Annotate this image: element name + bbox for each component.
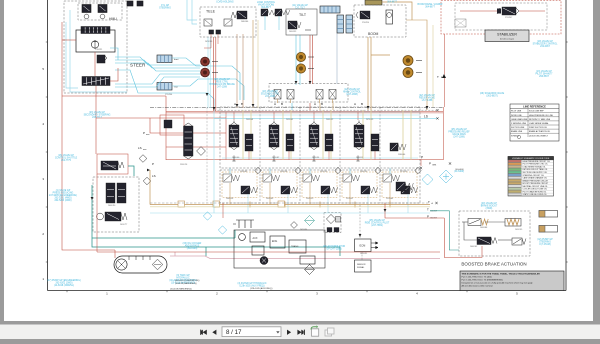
svg-text:296-5837: 296-5837 <box>539 76 549 78</box>
toolbar copy icon (disabled) <box>325 328 334 336</box>
svg-text:T: T <box>428 200 430 204</box>
svg-text:270-2110: 270-2110 <box>362 22 369 24</box>
flow control spool <box>101 161 124 170</box>
svg-text:254-1518: 254-1518 <box>280 171 287 173</box>
HMU top dashed sub-box <box>78 3 122 20</box>
TELE valve small 2 <box>224 19 232 26</box>
svg-text:(10-6018 (HARDENED)): (10-6018 (HARDENED)) <box>170 287 192 290</box>
svg-text:max: max <box>143 149 146 151</box>
pressure filter diamond 2 <box>324 213 341 233</box>
hydraulic tank <box>114 256 167 273</box>
svg-text:247-1388: 247-1388 <box>265 96 275 98</box>
svg-text:LOAD SENSE SIGNAL: LOAD SENSE SIGNAL <box>529 122 549 125</box>
TELE wires <box>204 34 218 48</box>
svg-text:271-2147: 271-2147 <box>505 17 512 19</box>
A B port labels <box>234 102 363 106</box>
svg-text:257-1629: 257-1629 <box>400 171 407 173</box>
tilt cylinder A <box>337 15 344 33</box>
svg-text:247-1388: 247-1388 <box>217 87 227 89</box>
svg-text:Part # 245-7789, 8 litre: Th (: Part # 245-7789, 8 litre: Th (ENGINEERIN… <box>462 279 504 282</box>
svg-text:B: B <box>361 102 363 106</box>
brake cylinder 1 <box>539 211 558 218</box>
svg-text:PILOT LINE: PILOT LINE <box>511 111 522 113</box>
pilot row orange sub-boxes <box>222 172 417 198</box>
gear pump circle <box>239 234 246 241</box>
svg-text:TILT: TILT <box>299 13 307 17</box>
svg-text:Designed on a true-to-scale on: Designed on a true-to-scale on a fully o… <box>462 282 534 285</box>
toolbar next button <box>287 330 291 335</box>
svg-text:(40+4095 (CONVENTION)): (40+4095 (CONVENTION)) <box>175 280 200 282</box>
test port M2 <box>296 64 305 73</box>
stabilizer inner dashed box <box>455 3 547 30</box>
gerotor pump circle <box>91 41 98 48</box>
lock valve pair 2 <box>275 9 290 16</box>
svg-text:Part # 245-7788, 8 litre: Th (: Part # 245-7788, 8 litre: Th (406) <box>462 276 492 279</box>
svg-text:P: P <box>152 162 154 166</box>
line reference table <box>510 104 559 141</box>
svg-text:P: P <box>429 162 431 166</box>
svg-text:STEERING: STEERING <box>159 8 171 10</box>
svg-text:264-1888: 264-1888 <box>480 227 487 229</box>
compensator 2 <box>286 134 294 151</box>
pump box 4 <box>300 256 315 264</box>
svg-text:(247-1388): (247-1388) <box>453 137 464 139</box>
svg-text:249-1333: 249-1333 <box>266 198 273 200</box>
cyan hose bundle steering <box>110 48 244 110</box>
junction arrowheads <box>91 81 429 237</box>
priority valve spool <box>82 77 110 86</box>
unload valve spool <box>184 123 194 159</box>
brake section dashed box <box>459 211 530 256</box>
svg-text:ECM: ECM <box>360 244 366 248</box>
svg-text:THIS SCHEMATIC IS FOR THE TH40: THIS SCHEMATIC IS FOR THE TH406L TH408L,… <box>462 273 541 276</box>
unload pilot valve <box>164 120 172 128</box>
compensator 4 <box>371 134 379 151</box>
flow control valve red box <box>97 154 128 174</box>
hose bundle TELE to bank <box>208 20 433 111</box>
svg-text:262-7775: 262-7775 <box>61 160 71 162</box>
anti-cav valve right <box>396 182 413 191</box>
brake supply diamond <box>440 170 453 183</box>
TELE dashed box <box>200 7 256 37</box>
toolbar last-page button <box>297 330 305 335</box>
pilot valve spool B <box>117 183 126 203</box>
steer cylinder front <box>157 55 179 63</box>
svg-text:(10-6400): (10-6400) <box>454 171 464 173</box>
toolbar snapshot icon <box>311 325 319 336</box>
svg-text:248-1296: 248-1296 <box>226 198 233 200</box>
compensator 3 <box>325 134 333 151</box>
svg-text:258-1666: 258-1666 <box>398 154 405 156</box>
unload valve group red box <box>160 115 184 135</box>
toolbar first-page button <box>200 330 207 335</box>
svg-text:266-1962: 266-1962 <box>470 246 477 248</box>
slave cylinder horizontal <box>320 6 340 13</box>
brake red feed <box>385 203 482 257</box>
work section spool 1 <box>229 121 239 150</box>
BOOM holding valve <box>356 11 370 19</box>
svg-text:259-1703: 259-1703 <box>180 164 187 166</box>
tank filter diamond <box>152 259 162 269</box>
clamp fittings top <box>127 1 133 6</box>
pilot solenoid valve 1b <box>241 186 258 194</box>
pilot supply dashed box <box>93 177 139 232</box>
work section spool 2 <box>269 121 279 150</box>
x end markers <box>420 109 451 204</box>
svg-text:PILOT DRAIN RETURN OIL: PILOT DRAIN RETURN OIL <box>523 190 547 193</box>
pump box 2 <box>270 236 285 248</box>
svg-text:SOLID LINE REF: SOLID LINE REF <box>529 111 545 113</box>
tan mini valves on gallery <box>178 201 285 207</box>
brake valve 3 <box>512 238 526 245</box>
svg-text:All unit dimensions within nom: All unit dimensions within nominal <box>462 285 494 288</box>
svg-text:SIGNAL: SIGNAL <box>357 266 365 269</box>
lock valve pair 1 <box>261 9 276 16</box>
svg-text:(Undercarriage): (Undercarriage) <box>500 39 514 41</box>
svg-text:P: P <box>143 131 145 135</box>
svg-text:X SENSING LINE: X SENSING LINE <box>511 123 527 125</box>
red gallery second line <box>166 112 443 114</box>
boom tan pilot lines <box>368 2 412 110</box>
pilot orifice diamond 4 <box>375 167 381 173</box>
svg-text:BRAKE PRESSURE CIRCUIT: BRAKE PRESSURE CIRCUIT <box>523 179 549 182</box>
main valve bank dashed box <box>220 107 420 168</box>
svg-text:LS 7-1388: LS 7-1388 <box>422 100 433 102</box>
pilot orifice diamond 2 <box>295 167 301 173</box>
svg-text:242-1074: 242-1074 <box>312 157 319 159</box>
stabilizer red wires <box>444 11 545 107</box>
pilot orifice diamond 5 <box>415 167 421 173</box>
svg-text:LS: LS <box>424 115 428 119</box>
pilot valve spool A <box>106 183 115 203</box>
drawing frame border <box>48 0 567 291</box>
LS filter diamond 2 <box>143 177 151 185</box>
BOOM dashed box <box>354 5 406 37</box>
oil cooler comb symbol <box>233 220 254 228</box>
bank outlet filter diamond <box>422 174 433 185</box>
red gallery bottom <box>97 174 440 252</box>
svg-text:364-8677: 364-8677 <box>387 2 397 4</box>
svg-text:(14-6018 (4WD/NL): (14-6018 (4WD/NL) <box>54 285 74 287</box>
stabilizer label box <box>485 30 529 42</box>
svg-text:244-1148: 244-1148 <box>246 119 253 121</box>
return filter diamond black <box>305 265 315 275</box>
ECM box <box>355 239 372 252</box>
charge pump motor circle <box>260 257 268 265</box>
micro component labels <box>95 17 522 255</box>
svg-text:256-1592: 256-1592 <box>360 171 367 173</box>
red supply line from pump <box>62 22 226 258</box>
svg-text:232-0067: 232-0067 <box>540 46 550 48</box>
svg-text:SENSOR: SENSOR <box>357 264 366 266</box>
stabilizer valve <box>497 7 519 15</box>
bank top dash-dot boundary <box>150 106 443 108</box>
svg-text:PUMP SUCTION OIL: PUMP SUCTION OIL <box>529 127 547 129</box>
svg-text:QUICK DISCONNECT: QUICK DISCONNECT <box>529 135 549 137</box>
ECM arrows <box>371 242 378 249</box>
solenoid pilot valve block <box>269 84 348 103</box>
svg-text:RETURN CIRCUIT TANK OIL: RETURN CIRCUIT TANK OIL <box>523 168 548 171</box>
pilot solenoid valve 4b <box>361 186 378 194</box>
svg-text:max: max <box>146 134 149 136</box>
micro part numbers <box>170 169 464 290</box>
svg-text:267-1999: 267-1999 <box>205 41 212 43</box>
work section spool 3 <box>309 121 319 150</box>
brake cylinder 2 <box>539 226 558 233</box>
svg-text:(128+1035 (AUX FREQ)): (128+1035 (AUX FREQ)) <box>250 287 273 290</box>
svg-text:364-8677: 364-8677 <box>261 7 271 9</box>
toolbar page input <box>222 327 281 337</box>
TELE valve small 1 <box>204 19 212 26</box>
tilt cylinder B <box>346 15 353 33</box>
steer cylinder rear <box>157 83 178 91</box>
svg-text:BOOSTED BRAKE ACTUATION: BOOSTED BRAKE ACTUATION <box>461 262 526 267</box>
svg-text:(10-6018 (HARDENED)): (10-6018 (HARDENED)) <box>175 282 197 285</box>
brake teal return <box>430 211 459 250</box>
pilot orifice diamond 3 <box>335 167 341 173</box>
test point arrows <box>212 57 422 73</box>
BOOM cylinder tan <box>365 0 382 5</box>
dashed vertical boundary left <box>206 107 208 203</box>
pressure filter diamond green <box>305 216 315 226</box>
svg-text:T: T <box>427 208 429 212</box>
toolbar <box>0 325 600 340</box>
pilot solenoid valve 5a <box>383 174 400 182</box>
pump box 3 <box>289 240 306 253</box>
svg-text:A: A <box>354 102 356 106</box>
svg-text:261-1777: 261-1777 <box>120 224 127 226</box>
work section spool 4 <box>354 121 364 150</box>
LS filter diamond <box>139 155 147 163</box>
pilot solenoid valve 5b <box>401 186 418 194</box>
pilot solenoid valve 3a <box>303 174 320 182</box>
svg-text:BOOM: BOOM <box>368 32 379 36</box>
svg-text:364-8677: 364-8677 <box>425 7 435 9</box>
brake wires <box>462 222 512 240</box>
pilot solenoid 1 <box>274 90 281 104</box>
pilot solenoid 2 <box>287 90 294 104</box>
svg-text:(247-1388): (247-1388) <box>346 94 357 96</box>
brake spring coil <box>507 219 519 225</box>
svg-text:A: A <box>274 102 276 106</box>
svg-text:250-1370: 250-1370 <box>306 198 313 200</box>
svg-text:B: B <box>321 102 323 106</box>
engine speed box <box>355 260 372 272</box>
svg-text:253-1481: 253-1481 <box>240 171 247 173</box>
cyan gallery bottom <box>150 110 430 213</box>
svg-text:268-2036: 268-2036 <box>241 21 248 23</box>
svg-text:240-1000: 240-1000 <box>232 157 239 159</box>
TILT box <box>286 9 317 35</box>
svg-text:BRAKE ACTUATION OIL: BRAKE ACTUATION OIL <box>529 130 550 133</box>
test port M3 <box>403 56 413 66</box>
TELE ports <box>209 30 214 34</box>
svg-text:262-1814: 262-1814 <box>300 229 307 231</box>
pilot solenoid 4 <box>329 90 336 104</box>
svg-text:B: B <box>281 102 283 106</box>
steering control spool <box>81 27 110 34</box>
svg-text:NEUTRAL CIRCUIT LINE OIL: NEUTRAL CIRCUIT LINE OIL <box>523 185 548 188</box>
svg-text:(247-7869): (247-7869) <box>371 225 382 227</box>
pilot row dividers <box>260 170 380 203</box>
svg-text:246-1222: 246-1222 <box>326 119 333 121</box>
svg-text:245-1185: 245-1185 <box>286 119 293 121</box>
TELE lock valve <box>231 11 247 19</box>
compensator 1 <box>245 134 253 151</box>
test port M1 <box>296 52 305 61</box>
svg-text:(362-8837): (362-8837) <box>486 96 497 98</box>
svg-text:TELE: TELE <box>206 10 216 14</box>
svg-text:AUX: AUX <box>253 237 258 240</box>
stabilizer red dashed box <box>441 1 561 35</box>
svg-text:272-2184: 272-2184 <box>165 94 172 96</box>
HMU section dashed box <box>64 1 127 93</box>
bank khaki pilot lines <box>243 110 411 160</box>
suction strainer circle <box>116 259 127 270</box>
svg-text:front: front <box>174 58 179 61</box>
svg-text:T: T <box>437 75 439 79</box>
svg-text:252-1444: 252-1444 <box>386 198 393 200</box>
tan gallery bottom <box>150 170 430 208</box>
P port red stub <box>420 160 422 167</box>
drain plug diamond <box>291 222 298 229</box>
brake valve 2 <box>477 237 497 245</box>
svg-text:TRANS: TRANS <box>291 245 299 248</box>
bank red pressure gallery frame <box>166 107 443 160</box>
end section relief valve <box>390 143 406 151</box>
svg-text:ENG: ENG <box>272 240 277 243</box>
svg-text:251-1407: 251-1407 <box>346 198 353 200</box>
svg-text:GP (247-1388): GP (247-1388) <box>326 249 341 251</box>
svg-text:262-5203 (2WD): 262-5203 (2WD) <box>55 200 72 202</box>
svg-text:247-1259: 247-1259 <box>366 119 373 121</box>
svg-text:RETURN TO TANK LINE: RETURN TO TANK LINE <box>529 118 551 121</box>
teal return line <box>92 166 340 256</box>
svg-text:(10-6400): (10-6400) <box>455 169 464 171</box>
svg-text:241-1037: 241-1037 <box>272 157 279 159</box>
accumulator charge valve <box>97 212 127 221</box>
svg-text:WORK LINE: WORK LINE <box>511 115 522 117</box>
machine boundary dashed <box>150 202 430 204</box>
svg-text:243-1111: 243-1111 <box>356 157 363 159</box>
svg-text:255-1555: 255-1555 <box>320 171 327 173</box>
svg-text:HIGH PRESSURE OIL LINE: HIGH PRESSURE OIL LINE <box>529 115 554 117</box>
pilot solenoid valve 2b <box>281 186 298 194</box>
ECM dashed signal line <box>359 205 361 239</box>
LS filter mid diamond <box>203 212 211 220</box>
pilot orifice diamond 1 <box>255 167 261 173</box>
svg-text:SUCTION LINE: SUCTION LINE <box>511 127 525 129</box>
svg-text:HMU: HMU <box>109 17 117 21</box>
bank cyan gallery lines <box>220 112 420 158</box>
BOOM accumulator <box>386 10 393 24</box>
svg-text:263-1851: 263-1851 <box>360 253 367 255</box>
engine pump group box <box>234 230 325 268</box>
pilot solenoid 3 <box>316 90 323 104</box>
valve bank section dividers <box>260 107 380 168</box>
hand pump 1 <box>82 5 91 13</box>
svg-text:A: A <box>314 102 316 106</box>
svg-text:CASE DRAIN LINE: CASE DRAIN LINE <box>511 118 528 121</box>
pilot solenoid valve 2a <box>263 174 280 182</box>
frame tick marks <box>46 42 568 292</box>
brake valve 1 <box>468 219 488 226</box>
test port M4 <box>403 68 413 78</box>
LS gallery cyan <box>214 117 437 119</box>
svg-text:LS: LS <box>138 146 142 150</box>
pilot solenoid valve 1a <box>223 174 240 182</box>
svg-text:# (7-05-08): # (7-05-08) <box>539 244 551 246</box>
svg-text:273-2221: 273-2221 <box>95 49 102 51</box>
notes box <box>460 271 564 291</box>
TILT valve <box>288 21 301 29</box>
pump box 1 <box>250 232 265 242</box>
pink drain line <box>170 252 440 259</box>
steering unit body <box>76 30 115 52</box>
svg-text:LOAD SENSE SIGNAL OIL: LOAD SENSE SIGNAL OIL <box>523 165 546 168</box>
svg-text:CASE DRAIN LEAKAGE OIL: CASE DRAIN LEAKAGE OIL <box>523 177 547 180</box>
svg-text:CYL TILT: CYL TILT <box>295 8 305 10</box>
svg-text:260-1740: 260-1740 <box>108 205 115 207</box>
test port RS2 <box>201 68 210 77</box>
svg-text:265-1925: 265-1925 <box>515 229 522 231</box>
svg-text:HYDRAULIC SCHEMATIC COLOUR COD: HYDRAULIC SCHEMATIC COLOUR CODE <box>512 157 550 160</box>
svg-text:238-7717: 238-7717 <box>92 117 102 119</box>
svg-text:269-2073: 269-2073 <box>289 31 296 33</box>
spool bottom stubs <box>232 156 359 162</box>
svg-text:LINE REFERENCE: LINE REFERENCE <box>523 105 546 109</box>
hand pump 2 <box>98 5 107 13</box>
pilot solenoid valve 3b <box>321 186 338 194</box>
svg-text:(30+0100): (30+0100) <box>187 248 198 250</box>
khaki gallery bottom <box>150 206 430 208</box>
svg-text:(4WD): (4WD) <box>486 208 493 210</box>
colour legend table <box>508 157 554 197</box>
pilot valve row dashed box <box>220 170 420 203</box>
T return dashed line <box>214 109 437 111</box>
svg-text:8 / 17: 8 / 17 <box>226 329 242 336</box>
pump box 5 <box>252 246 264 255</box>
svg-text:STABILIZER: STABILIZER <box>497 33 517 37</box>
TILT marks <box>305 29 311 31</box>
toolbar prev button <box>212 330 216 335</box>
stabilizer aux box <box>455 19 466 27</box>
svg-text:BRAKE LINE: BRAKE LINE <box>511 130 523 133</box>
svg-text:LS: LS <box>152 174 156 178</box>
unload filter diamond <box>197 147 206 156</box>
svg-text:LOAD HOLDING: LOAD HOLDING <box>216 1 234 4</box>
test port RS1 <box>201 57 210 66</box>
lower row stubs <box>230 168 408 213</box>
cyan lines upper left <box>66 0 197 92</box>
svg-text:P: P <box>421 156 423 160</box>
relief valve HMU <box>97 55 105 63</box>
svg-text:STATIC LINE BLOCKED OIL: STATIC LINE BLOCKED OIL <box>523 193 547 196</box>
pilot solenoid valve 4a <box>343 174 360 182</box>
